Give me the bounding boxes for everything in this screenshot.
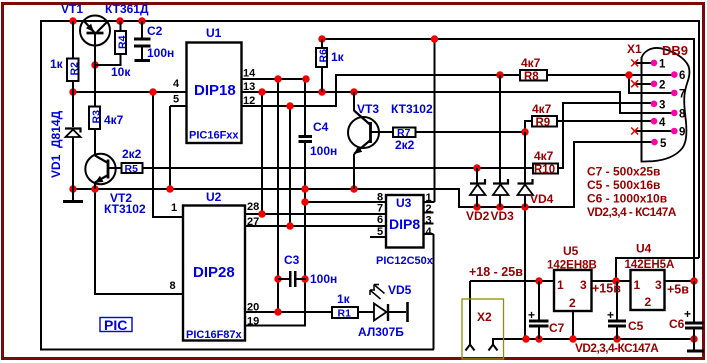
svg-text:3: 3	[655, 278, 662, 292]
node U3 pin8 wire	[301, 198, 308, 205]
wire U1 pin13 dropper to U2 pin28	[261, 92, 263, 214]
wire +18-25v row	[470, 280, 554, 282]
node VT1 emitter rail	[69, 17, 76, 24]
wire +5 riser to U3 pin1	[423, 39, 435, 202]
svg-text:R5: R5	[125, 163, 139, 175]
capacitor C5 electrolytic	[607, 281, 644, 339]
pin 5 cell	[370, 236, 386, 238]
op-amp U1 chip DIP18	[170, 26, 256, 143]
ground VD1	[63, 200, 83, 203]
svg-text:5: 5	[660, 138, 667, 150]
node C7 top	[535, 277, 542, 284]
svg-text:4: 4	[426, 226, 433, 238]
svg-text:14: 14	[243, 68, 256, 80]
wire U5 pin2 ground	[572, 311, 574, 339]
svg-text:R9: R9	[536, 117, 551, 129]
svg-text:PIC12C50x: PIC12C50x	[376, 255, 434, 267]
transistor VT3	[348, 92, 433, 189]
wire U2 pin27 to U3 pin6	[245, 225, 386, 227]
svg-text:PIC16Fxx: PIC16Fxx	[189, 130, 239, 142]
svg-text:7: 7	[377, 203, 383, 215]
wire U1 pin13 row to DB9 pin8	[242, 92, 674, 113]
svg-text:27: 27	[247, 216, 259, 228]
svg-text:C3: C3	[284, 253, 300, 267]
svg-text:VD5: VD5	[388, 283, 412, 297]
node R8 row / VD3	[496, 71, 503, 78]
node pin13 row	[258, 88, 265, 95]
svg-text:10к: 10к	[111, 65, 131, 79]
svg-text:U3: U3	[396, 196, 412, 210]
svg-text:R3: R3	[91, 110, 103, 124]
svg-text:1: 1	[634, 278, 641, 292]
node +5v	[690, 277, 697, 284]
capacitor C3	[278, 253, 337, 287]
op-amp U3 chip DIP8	[370, 192, 434, 268]
connector X1 DB9	[627, 42, 689, 162]
svg-text:4к7: 4к7	[104, 113, 124, 127]
wire VD4 ground column	[524, 207, 526, 339]
svg-text:R2: R2	[69, 62, 81, 76]
svg-text:142ЕН8В: 142ЕН8В	[547, 260, 597, 272]
node pin27 wire	[286, 222, 293, 229]
wire U2 pin20 to R1	[245, 311, 332, 313]
svg-text:1: 1	[557, 278, 564, 292]
svg-text:U4: U4	[636, 242, 652, 256]
wire U1 pin12 dropper to U2 pin27	[289, 106, 291, 227]
svg-text:VD2,3,4 - КС147А: VD2,3,4 - КС147А	[587, 205, 677, 219]
wire C4 lead column	[304, 79, 306, 326]
svg-text:C2: C2	[147, 24, 163, 38]
node R7/R9/VD4	[521, 128, 528, 135]
svg-text:КТ3102: КТ3102	[391, 102, 433, 116]
regulator U5 142EH8B	[547, 244, 597, 311]
pin 2 stub	[636, 83, 654, 85]
pin 5 cell	[170, 105, 187, 107]
node pin20 wire	[274, 308, 281, 315]
ground bottom right	[687, 339, 704, 351]
svg-text:3: 3	[659, 100, 665, 112]
svg-text:142ЕН5А: 142ЕН5А	[625, 259, 675, 271]
svg-text:DIP8: DIP8	[389, 216, 420, 232]
wire R7 to R9 junction	[415, 121, 532, 132]
ground C2	[135, 59, 151, 62]
wire U1 pin14 row	[242, 78, 306, 80]
op-amp U2 chip DIP28	[170, 190, 260, 341]
wire +5 merge stub y=258	[616, 258, 699, 281]
svg-text:C5: C5	[628, 319, 644, 333]
svg-text:100н: 100н	[310, 144, 337, 158]
svg-text:VD2,3,4-КС147А: VD2,3,4-КС147А	[575, 341, 659, 355]
wire U2 pin28 to U3 pin7	[245, 213, 386, 215]
node pin12 row	[286, 102, 293, 109]
resistor R2	[50, 21, 81, 92]
svg-text:20: 20	[247, 302, 259, 314]
svg-text:АЛ307Б: АЛ307Б	[358, 325, 404, 339]
resistor R3	[89, 65, 124, 154]
wire R9 to DB9 pin4	[557, 120, 654, 122]
svg-text:3: 3	[426, 215, 432, 227]
svg-text:VD3: VD3	[491, 209, 515, 223]
diode VD1 zener	[49, 92, 81, 201]
wire U1 pin5 cell edge dropper	[169, 106, 171, 189]
node pin28 wire	[258, 210, 265, 217]
svg-text:+18 - 25в: +18 - 25в	[469, 265, 523, 279]
svg-text:2к2: 2к2	[395, 138, 415, 152]
wire R10 to DB9 pin3	[558, 103, 654, 168]
resistor R8	[520, 56, 547, 83]
svg-text:КТ3102: КТ3102	[104, 202, 146, 216]
wire R6 top line y=39 to right edge	[322, 39, 694, 258]
svg-text:2: 2	[569, 296, 576, 310]
svg-text:13: 13	[243, 81, 255, 93]
wire U3 pin4 dropper to bottom rail	[433, 234, 435, 350]
node ground rail	[522, 335, 529, 342]
svg-text:C7 - 500x25в: C7 - 500x25в	[587, 165, 660, 179]
svg-text:VT3: VT3	[357, 102, 379, 116]
pin 1 cell	[424, 213, 434, 235]
svg-text:+: +	[528, 308, 535, 322]
svg-text:КТ361Д: КТ361Д	[105, 2, 149, 16]
node R6 top	[318, 35, 325, 42]
connector X2 pin B	[489, 339, 498, 351]
svg-text:4к7: 4к7	[534, 149, 554, 163]
svg-text:R4: R4	[117, 35, 129, 49]
svg-text:28: 28	[247, 201, 259, 213]
svg-text:C5 - 500x16в: C5 - 500x16в	[587, 178, 660, 192]
svg-text:R6: R6	[318, 49, 330, 63]
wire junction to DB9 pin7	[629, 75, 674, 93]
svg-text:1: 1	[171, 202, 177, 214]
svg-text:C6 - 1000x10в: C6 - 1000x10в	[587, 192, 667, 206]
svg-text:X1: X1	[627, 42, 642, 56]
resistor R6	[316, 39, 345, 92]
svg-text:+: +	[684, 307, 691, 321]
svg-text:9: 9	[679, 127, 685, 139]
wire R8 right to DB9 pin6	[547, 74, 674, 76]
LED VD5	[358, 283, 412, 339]
svg-text:100н: 100н	[310, 272, 337, 286]
regulator U4 142EH5A	[625, 242, 675, 311]
capacitor C6 electrolytic	[669, 281, 704, 339]
wire ground rail bottom	[525, 338, 694, 340]
resistor R9	[532, 102, 557, 129]
no-connect X marks	[631, 59, 638, 134]
svg-text:+: +	[607, 308, 614, 322]
capacitor C4	[299, 120, 338, 158]
svg-text:DIP18: DIP18	[194, 82, 236, 99]
svg-text:DB9: DB9	[662, 43, 688, 58]
pin 1 stub	[636, 62, 654, 64]
diode VD4 zener	[518, 132, 554, 207]
svg-text:4: 4	[659, 117, 666, 129]
wire emitter rail to diode rail to DB9 pin5	[73, 142, 654, 207]
resistor R10	[533, 149, 558, 176]
svg-text:U2: U2	[206, 190, 222, 204]
node pin14 row	[274, 75, 281, 82]
svg-text:C6: C6	[669, 317, 685, 331]
wire U1 pin4 row	[73, 91, 186, 93]
svg-text:DIP28: DIP28	[193, 264, 235, 281]
svg-text:6: 6	[679, 70, 685, 82]
svg-text:3: 3	[580, 278, 587, 292]
svg-text:2: 2	[645, 295, 652, 309]
svg-text:1к: 1к	[50, 57, 64, 71]
svg-text:R8: R8	[524, 71, 539, 83]
wire R5 to R10 row	[142, 167, 533, 169]
node VT1 base / R4	[91, 61, 98, 68]
svg-text:VD2: VD2	[466, 209, 490, 223]
diode VD3 zener	[491, 75, 515, 223]
svg-text:5: 5	[173, 94, 179, 106]
svg-text:PIC: PIC	[104, 317, 127, 333]
svg-text:C4: C4	[313, 120, 329, 134]
svg-text:4к7: 4к7	[521, 56, 541, 70]
svg-text:VD4: VD4	[530, 192, 554, 206]
transistor VT1	[61, 2, 149, 65]
svg-text:12: 12	[243, 95, 255, 107]
diode VD2 zener	[466, 168, 490, 223]
svg-text:U5: U5	[563, 244, 579, 258]
wire U2 pin8 from VT2 emitter	[95, 189, 183, 294]
wire U1 pin12 row to R8	[242, 75, 520, 106]
wire U5 pin3 to U4 pin1	[591, 280, 631, 282]
svg-text:1: 1	[659, 59, 666, 71]
svg-text:2: 2	[426, 203, 432, 215]
wire U1 pin14 dropper / C3 left / U2 pin20	[277, 79, 279, 313]
resistor R5	[122, 147, 143, 175]
transistor VT2	[85, 154, 146, 216]
resistor R7	[393, 127, 416, 152]
node R2 / VD1	[69, 88, 76, 95]
svg-text:7: 7	[679, 89, 685, 101]
node +15v	[612, 277, 619, 284]
svg-text:R10: R10	[534, 164, 555, 176]
svg-text:X2: X2	[477, 310, 492, 324]
svg-text:5: 5	[377, 226, 383, 238]
svg-text:+15в: +15в	[592, 282, 621, 296]
svg-text:VT1: VT1	[61, 2, 83, 16]
pin dots	[651, 60, 678, 146]
wire +5 node drop	[693, 258, 695, 282]
pin 9 stub	[636, 130, 674, 132]
wire U2 pin1 from pin4 row	[153, 92, 183, 217]
resistor R1	[332, 292, 374, 320]
label PIC box	[100, 317, 132, 333]
svg-text:2: 2	[659, 80, 665, 92]
svg-text:C7: C7	[549, 321, 565, 335]
wire U4 pin3 to +5	[664, 280, 694, 282]
svg-text:100н: 100н	[147, 46, 174, 60]
wire X2 pinA stem	[469, 281, 471, 344]
svg-text:VD1 Д814Д: VD1 Д814Д	[49, 110, 63, 178]
svg-text:1к: 1к	[331, 50, 345, 64]
svg-text:R1: R1	[338, 308, 352, 320]
node VD2 top	[473, 164, 480, 171]
wire X2 pinB to ground rail	[493, 339, 526, 344]
svg-text:8: 8	[679, 109, 686, 121]
svg-text:PIC16F87x: PIC16F87x	[186, 329, 243, 341]
svg-text:19: 19	[247, 316, 259, 328]
node C3	[274, 275, 281, 282]
capacitor C2	[134, 21, 174, 60]
node diode rail	[473, 203, 480, 210]
node emitter rail	[69, 185, 76, 192]
wire U3 pin8	[305, 201, 386, 203]
connector X2 box	[462, 299, 504, 359]
svg-text:4: 4	[173, 78, 180, 90]
resistor R4	[95, 21, 131, 79]
connector X2 pin A	[466, 338, 475, 351]
capacitor C7 electrolytic	[528, 281, 565, 339]
svg-text:4к7: 4к7	[532, 102, 552, 116]
svg-text:6: 6	[377, 214, 383, 226]
svg-text:+5в: +5в	[667, 283, 689, 297]
svg-text:1к: 1к	[337, 292, 351, 306]
wire U2 pin19	[245, 325, 306, 327]
svg-text:8: 8	[170, 280, 176, 292]
svg-text:U1: U1	[206, 26, 222, 40]
svg-text:2к2: 2к2	[122, 147, 142, 161]
